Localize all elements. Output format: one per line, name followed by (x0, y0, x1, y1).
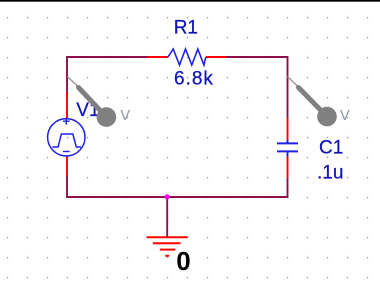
top toolbar edge (0, 0, 380, 2)
junction node (165, 194, 170, 199)
resistor R1 (147, 49, 226, 65)
source V1 (48, 92, 85, 176)
svg-text:C1: C1 (319, 138, 343, 159)
voltage marker right (287, 77, 337, 127)
svg-text:V: V (120, 108, 130, 124)
svg-text:R1: R1 (174, 17, 198, 38)
wire top-left segment (67, 57, 147, 92)
capacitor C1 (277, 118, 298, 179)
voltage marker left (67, 77, 116, 127)
svg-text:.1u: .1u (317, 162, 343, 183)
wire ground stem (166, 197, 168, 237)
svg-text:0: 0 (176, 246, 190, 276)
svg-text:6.8k: 6.8k (174, 68, 214, 89)
svg-text:V: V (340, 108, 350, 124)
wire bottom rail (67, 176, 288, 197)
ground 0 (147, 237, 188, 256)
wire top-right segment (226, 57, 288, 118)
